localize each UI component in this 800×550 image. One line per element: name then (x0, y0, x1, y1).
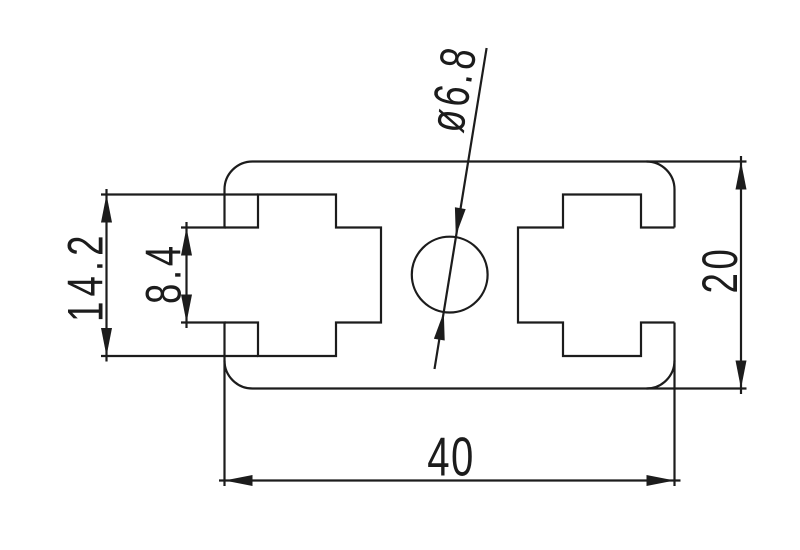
dim 20 extension lines (647, 162, 747, 389)
dim 14.2 dimension line (105, 189, 107, 362)
leader arrow at circle top (455, 207, 466, 236)
svg-text:20: 20 (692, 246, 748, 294)
svg-text:40: 40 (427, 426, 475, 488)
arrow 14.2 top (101, 195, 112, 223)
leader arrow at circle bottom (434, 312, 445, 341)
right T-slot cavity (518, 195, 675, 357)
dim 20 dimension line (740, 156, 742, 394)
arrow 40 left (225, 475, 253, 486)
profile outline bottom half (225, 323, 675, 389)
dim 8.4 extension lines (181, 228, 226, 323)
left T-slot cavity (225, 195, 382, 357)
profile outline top half (225, 162, 675, 228)
center hole circle (412, 237, 488, 313)
arrow 8.4 top (181, 228, 192, 256)
arrow 20 bottom (736, 361, 747, 389)
arrow 8.4 bottom (181, 295, 192, 323)
dim 14.2 extension lines (101, 195, 258, 357)
dim 40 dimension line (219, 479, 681, 481)
arrow 14.2 bottom (101, 328, 112, 356)
arrow 40 right (647, 475, 675, 486)
svg-text:14.2: 14.2 (58, 230, 114, 321)
dim 8.4 dimension line (185, 222, 187, 328)
svg-text:ø6.8: ø6.8 (419, 41, 488, 136)
leader line for hole diameter (435, 48, 487, 369)
dim 40 extension lines (225, 361, 675, 487)
arrow 20 top (736, 162, 747, 190)
svg-text:8.4: 8.4 (136, 242, 192, 304)
